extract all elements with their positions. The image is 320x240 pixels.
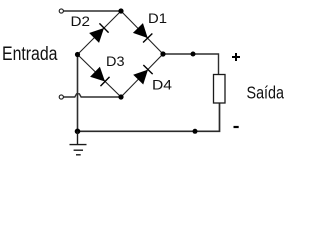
node: ground junction dot <box>75 129 81 135</box>
svg-text:Entrada: Entrada <box>2 44 58 65</box>
svg-text:D2: D2 <box>71 13 91 29</box>
resistor load (Saída) <box>214 75 226 104</box>
wire: diamond edge bottom-right (carries D4) <box>121 54 163 97</box>
wire: bottom return wire from ground junction to resistor bottom <box>78 103 220 131</box>
diode D3 (left node to bottom node) <box>90 67 110 87</box>
node: dot on top output wire <box>191 52 196 57</box>
wire: lower input wire with hop over vertical wire <box>64 94 122 97</box>
wire: right node to output top corner and down to resistor <box>163 54 219 75</box>
diode D2 (left node to top node) <box>89 23 109 43</box>
svg-text:D1: D1 <box>148 10 167 26</box>
terminal: input bottom open circle <box>59 95 63 99</box>
ground symbol <box>70 131 87 155</box>
wire: diamond edge left-bottom (carries D3) <box>78 55 122 98</box>
diode D4 (bottom node to right node) <box>133 65 153 85</box>
node: right junction dot <box>160 51 165 56</box>
plus sign at output <box>232 53 240 61</box>
svg-text:D4: D4 <box>152 76 172 92</box>
node: dot on bottom wire near resistor <box>193 129 198 134</box>
minus sign at output <box>234 126 239 128</box>
wire: diamond edge top-right (carries D1) <box>121 11 163 54</box>
node: bottom junction dot <box>118 94 123 99</box>
wire: vertical from left node down to ground junction <box>77 55 79 132</box>
diode D1 (top node to right node) <box>133 23 153 43</box>
svg-text:Saída: Saída <box>247 82 285 102</box>
node: left junction dot <box>75 52 80 57</box>
wire: top input wire from terminal to top node <box>64 10 122 12</box>
wire: diamond edge left-top (carries D2) <box>78 11 122 55</box>
node: top junction dot <box>118 8 123 13</box>
svg-text:D3: D3 <box>106 53 125 69</box>
terminal: input top open circle <box>59 9 63 13</box>
